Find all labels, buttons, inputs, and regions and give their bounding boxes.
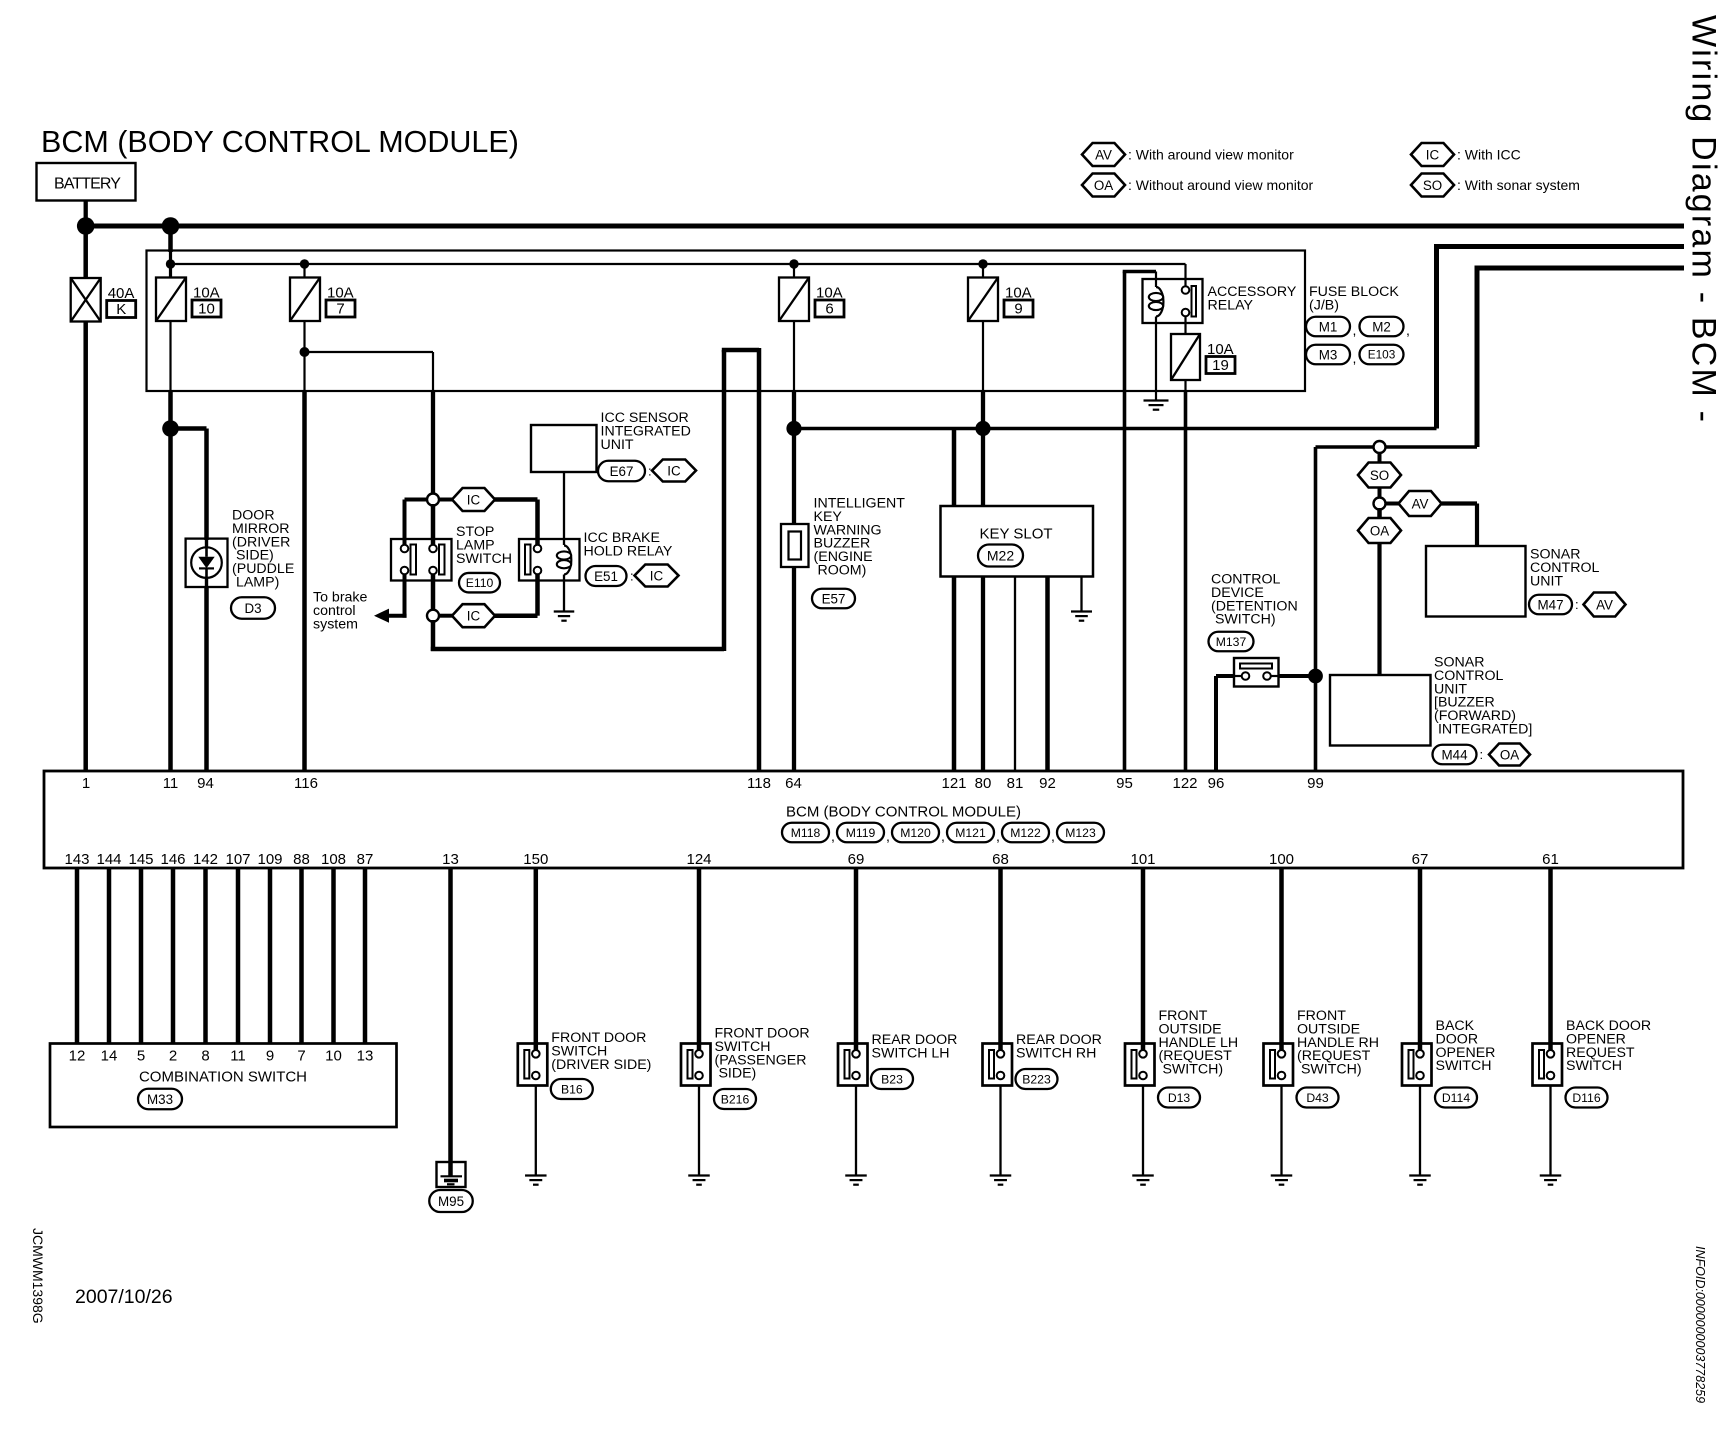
door mirror (puddle lamp) box D3 — [186, 539, 228, 587]
wire bus1 battery feed — [86, 224, 1684, 229]
node fuse 7 branch junction — [300, 347, 310, 357]
svg-text:IC: IC — [467, 492, 481, 507]
BCM pin 146 — [160, 851, 185, 868]
node IC branch top — [427, 494, 439, 506]
comma — [1353, 350, 1357, 366]
key slot label — [979, 526, 1052, 543]
svg-text:,: , — [1353, 350, 1357, 366]
fuse block label — [1309, 284, 1399, 313]
wire BCM to front door switch driver side — [534, 868, 539, 1051]
wire BCM pin13 to ground — [448, 868, 453, 1176]
fuse 10A 19 — [1171, 334, 1200, 380]
wire bus1 to fuse block drop — [168, 226, 173, 252]
svg-text:SWITCH): SWITCH) — [1159, 1062, 1224, 1078]
BCM pin 80 — [975, 775, 992, 792]
rear door switch RH box B223 — [983, 1044, 1013, 1086]
wire BCM to combination switch #4 — [171, 868, 176, 1044]
wire key feed branch to key slot — [952, 429, 957, 507]
svg-text:2: 2 — [169, 1048, 177, 1065]
wire BCM to combination switch #8 — [299, 868, 304, 1044]
wire top node west to pole2 — [405, 500, 428, 546]
wire AV to sonar control unit — [1442, 504, 1478, 547]
front door switch driver side box B16 — [518, 1044, 548, 1086]
infoid vertical text — [1693, 1246, 1707, 1403]
ground front door switch passenger side — [688, 1176, 710, 1185]
svg-text:IC: IC — [650, 568, 664, 583]
front door switch driver side label — [551, 1030, 651, 1073]
wire front door switch passenger side to ground — [698, 1086, 700, 1176]
value label 10A / fuse 10 — [192, 285, 221, 318]
wire BCM to front door switch passenger side — [697, 868, 702, 1051]
svg-text:: With around view monitor: : With around view monitor — [1128, 147, 1294, 163]
value label 10A / fuse 6 — [815, 285, 844, 318]
legend OA text — [1128, 177, 1314, 193]
wire BCM to combination switch #7 — [268, 868, 273, 1044]
svg-text:AV: AV — [1596, 597, 1613, 612]
svg-text:BCM (BODY CONTROL MODULE): BCM (BODY CONTROL MODULE) — [41, 125, 519, 159]
BCM pin 108 — [321, 851, 346, 868]
ICC sensor label — [601, 410, 691, 453]
svg-text:64: 64 — [785, 775, 802, 792]
svg-text:,: , — [996, 828, 1000, 844]
svg-text:(DRIVER SIDE): (DRIVER SIDE) — [551, 1057, 651, 1073]
front outside handle LH request switch box D13 — [1125, 1044, 1155, 1086]
wire low node west + arrow to brake control system — [374, 609, 407, 623]
BCM pin 92 — [1039, 775, 1056, 792]
svg-text:M3: M3 — [1319, 347, 1338, 362]
node key-line junction B — [975, 421, 990, 436]
svg-text:SIDE): SIDE) — [715, 1066, 757, 1082]
BCM pin 142 — [193, 851, 218, 868]
fuse block connector M3 — [1306, 345, 1350, 365]
front outside handle LH request switch label — [1159, 1008, 1239, 1078]
wire top node to switch pole1 — [431, 504, 436, 545]
svg-text:7: 7 — [336, 301, 344, 318]
svg-text:D3: D3 — [244, 601, 261, 616]
ground accessory relay — [1144, 401, 1169, 410]
wire BCM to back door opener switch — [1418, 868, 1423, 1051]
combination switch label — [139, 1069, 307, 1086]
svg-text:KEY SLOT: KEY SLOT — [979, 526, 1052, 543]
IC marker top — [439, 488, 495, 511]
BCM pin 116 — [294, 775, 318, 792]
wire door mirror to BCM pin 94 — [204, 587, 209, 771]
BCM pin 124 — [686, 851, 711, 868]
key slot connector M22 — [978, 545, 1023, 567]
svg-text:95: 95 — [1116, 775, 1133, 792]
BCM pin 81 — [1007, 775, 1024, 792]
BCM connector M122 — [1002, 823, 1055, 844]
fuse block J/B box — [147, 251, 1306, 392]
stop lamp switch label — [456, 524, 512, 567]
svg-text:LAMP): LAMP) — [232, 575, 279, 591]
back door opener request switch connector D116 — [1566, 1088, 1608, 1108]
svg-text::: : — [630, 569, 634, 584]
node AV/OA circle — [1374, 498, 1386, 510]
sonar control unit label — [1530, 547, 1599, 590]
svg-text:SO: SO — [1423, 178, 1442, 193]
wire key slot pin to BCM 80 — [981, 577, 985, 772]
fuse block connector M2 — [1360, 317, 1404, 337]
ground back door opener request switch — [1540, 1176, 1562, 1185]
accessory relay label — [1208, 284, 1297, 313]
ground rear door switch LH — [845, 1176, 867, 1185]
value label 10A / fuse 9 — [1004, 285, 1033, 318]
svg-text:,: , — [886, 828, 890, 844]
svg-text:INTEGRATED]: INTEGRATED] — [1434, 722, 1532, 738]
wire stop lamp feed — [431, 391, 435, 495]
svg-text:SWITCH RH: SWITCH RH — [1016, 1045, 1096, 1061]
legend SO symbol — [1411, 174, 1454, 197]
svg-text:: Without around view monitor: : Without around view monitor — [1128, 177, 1314, 193]
comma — [1406, 322, 1410, 338]
ground M95 box — [437, 1162, 466, 1187]
BCM pin 69 — [848, 851, 865, 868]
accessory relay box — [1143, 279, 1203, 323]
wire fuse 9 lead — [982, 321, 984, 391]
legend OA symbol — [1082, 174, 1125, 197]
node key-line junction A — [786, 421, 801, 436]
ground rear door switch RH — [990, 1176, 1012, 1185]
svg-text:68: 68 — [992, 851, 1009, 868]
svg-text:M119: M119 — [846, 826, 876, 840]
wire fuse 10 to junction — [168, 391, 173, 429]
BCM pin 95 — [1116, 775, 1133, 792]
wire low node to bottom run — [431, 620, 436, 651]
node sonar option circle — [1374, 441, 1386, 453]
svg-text:SWITCH): SWITCH) — [1211, 612, 1276, 628]
wire inner bus stub fuse9 — [982, 264, 984, 278]
ground front outside handle RH request switch — [1271, 1176, 1293, 1185]
svg-text:10: 10 — [325, 1048, 342, 1065]
wire junction to BCM pin 11 — [168, 429, 173, 772]
wire fuse 7 lead down — [303, 321, 305, 352]
front outside handle RH request switch label — [1297, 1008, 1379, 1078]
svg-text:(J/B): (J/B) — [1309, 297, 1339, 313]
svg-text:K: K — [116, 301, 126, 318]
svg-text:RELAY: RELAY — [1208, 297, 1254, 313]
svg-text:1: 1 — [82, 775, 90, 792]
svg-text:109: 109 — [257, 851, 282, 868]
svg-text:M47: M47 — [1537, 597, 1563, 612]
BCM pin 107 — [225, 851, 250, 868]
node control device junction — [1308, 669, 1323, 684]
wire BCM to combination switch #5 — [203, 868, 208, 1044]
node battery junction — [77, 217, 95, 235]
svg-text:69: 69 — [848, 851, 865, 868]
sonar buzzer unit box M44 — [1330, 675, 1431, 746]
wire BCM to rear door switch RH — [998, 868, 1003, 1051]
front door switch driver side connector B16 — [551, 1079, 593, 1099]
wire BCM to combination switch #9 — [331, 868, 336, 1044]
wire relay contact to fuse 19 — [1184, 317, 1186, 335]
combination switch pin 10 — [325, 1048, 342, 1065]
svg-text:M120: M120 — [900, 826, 931, 840]
stop lamp switch box E110 — [391, 539, 452, 581]
svg-text:M137: M137 — [1216, 635, 1247, 649]
wire back door opener request switch to ground — [1549, 1086, 1551, 1176]
OA marker — [1358, 508, 1401, 543]
title text — [41, 125, 519, 159]
svg-text:99: 99 — [1307, 775, 1324, 792]
svg-text:,: , — [1051, 828, 1055, 844]
wire BCM to rear door switch LH — [854, 868, 859, 1051]
BCM pin 99 — [1307, 775, 1324, 792]
wire buzzer to BCM pin 64 — [792, 567, 796, 771]
svg-text:OA: OA — [1500, 747, 1519, 762]
svg-text:87: 87 — [357, 851, 374, 868]
wire fuse 19 to BCM pin 122 — [1184, 380, 1186, 771]
svg-text:88: 88 — [293, 851, 310, 868]
svg-text:108: 108 — [321, 851, 346, 868]
BCM pin 64 — [785, 775, 802, 792]
combination switch pin 13 — [357, 1048, 374, 1065]
front door switch passenger side connector B216 — [714, 1089, 756, 1109]
svg-text:2007/10/26: 2007/10/26 — [75, 1286, 173, 1308]
svg-text:10: 10 — [198, 301, 215, 318]
svg-text:E51: E51 — [594, 569, 618, 584]
svg-text:146: 146 — [160, 851, 185, 868]
svg-text:,: , — [941, 828, 945, 844]
combination switch pin 12 — [69, 1048, 86, 1065]
wire fuse-block inner bus — [171, 263, 1186, 265]
SO marker — [1358, 463, 1401, 488]
legend AV text — [1128, 147, 1294, 163]
wire key slot pin to BCM 92 — [1045, 577, 1050, 772]
combination switch connector M33 — [138, 1089, 182, 1110]
BCM pin 150 — [523, 851, 548, 868]
wire rear door switch LH to ground — [855, 1086, 857, 1176]
svg-text:AV: AV — [1412, 496, 1429, 511]
ICC brake hold relay label — [584, 530, 673, 559]
wire ICC sensor to relay coil — [563, 472, 565, 545]
svg-text:B223: B223 — [1022, 1072, 1051, 1086]
BCM pin 68 — [992, 851, 1009, 868]
wire fuse 6 to key-line junction — [792, 391, 796, 429]
svg-text:94: 94 — [197, 775, 214, 792]
wire fuse 10 lower lead — [169, 321, 171, 391]
back door opener switch connector D114 — [1435, 1088, 1477, 1108]
BCM pin 87 — [357, 851, 374, 868]
svg-text:9: 9 — [1014, 301, 1022, 318]
value label 10A / fuse 19 — [1206, 341, 1235, 374]
svg-text:122: 122 — [1172, 775, 1197, 792]
intelligent key buzzer label — [814, 496, 906, 579]
date text — [75, 1286, 173, 1308]
wire BCM to front outside handle RH request switch — [1279, 868, 1284, 1051]
rear door switch RH connector B223 — [1016, 1069, 1058, 1089]
wire BCM to combination switch #6 — [236, 868, 241, 1044]
svg-text:9: 9 — [266, 1048, 274, 1065]
node inner bus junction fuse7 — [300, 259, 309, 268]
legend SO text — [1457, 177, 1580, 193]
control device switch box M137 — [1234, 658, 1279, 687]
wire battery stem — [84, 201, 88, 227]
svg-text:142: 142 — [193, 851, 218, 868]
node inner bus junction fuse9 — [978, 259, 987, 268]
svg-text:ROOM): ROOM) — [814, 563, 867, 579]
wire front outside handle LH request switch to ground — [1142, 1086, 1144, 1176]
svg-text:150: 150 — [523, 851, 548, 868]
ground back door opener switch — [1409, 1176, 1431, 1185]
wire OA to sonar buzzer unit — [1377, 543, 1381, 675]
svg-text:M118: M118 — [791, 826, 821, 840]
comma — [1353, 322, 1357, 338]
combination switch pin 8 — [201, 1048, 209, 1065]
svg-text:SWITCH: SWITCH — [456, 551, 512, 567]
svg-text:143: 143 — [64, 851, 89, 868]
svg-text:M1: M1 — [1319, 319, 1338, 334]
ground front door switch driver side — [525, 1176, 547, 1185]
svg-text:121: 121 — [941, 775, 966, 792]
rear door switch LH box B23 — [838, 1044, 868, 1086]
svg-text:118: 118 — [747, 775, 771, 792]
wire IC bottom to relay contact — [495, 574, 538, 616]
wire relay coil to ground — [563, 575, 565, 612]
BCM pin 144 — [96, 851, 121, 868]
BCM pin 121 — [941, 775, 966, 792]
combination switch pin 9 — [266, 1048, 274, 1065]
node inner bus junction fuse6 — [789, 259, 798, 268]
wire IC top to relay contact — [495, 500, 538, 546]
wire BCM to front outside handle LH request switch — [1141, 868, 1146, 1051]
wire BCM pin95 riser — [1123, 272, 1127, 772]
rear door switch LH label — [872, 1032, 958, 1061]
wire key slot ground lead — [1080, 577, 1082, 612]
wire bus3 — [1477, 266, 1684, 448]
wire BCM to combination switch #1 — [75, 868, 80, 1044]
svg-text:92: 92 — [1039, 775, 1056, 792]
sonar buzzer connector M44 — [1433, 744, 1531, 766]
node inner bus junction fuse10 — [166, 259, 175, 268]
fuse 10A 7 — [290, 278, 320, 322]
fuse 10A 6 — [779, 278, 809, 322]
svg-text:,: , — [1406, 322, 1410, 338]
wire BCM to combination switch #3 — [139, 868, 144, 1044]
IC marker bottom — [439, 604, 495, 627]
ground key slot — [1071, 612, 1092, 621]
BCM pin 96 — [1208, 775, 1225, 792]
svg-text:B23: B23 — [881, 1072, 903, 1086]
BCM pin 61 — [1542, 851, 1559, 868]
svg-text:,: , — [831, 828, 835, 844]
wire bus2 — [1437, 244, 1685, 429]
svg-text:19: 19 — [1212, 357, 1229, 374]
wire bottom run to right riser — [431, 647, 724, 652]
wire SO to AV/OA circle — [1378, 488, 1382, 500]
svg-text:D114: D114 — [1442, 1091, 1470, 1105]
svg-text:B16: B16 — [561, 1082, 583, 1096]
wire switch pole1 down to low node — [431, 574, 436, 611]
key slot box M22 — [941, 506, 1094, 577]
legend IC symbol — [1411, 143, 1454, 166]
svg-text:OA: OA — [1370, 523, 1389, 538]
BCM pin 101 — [1130, 851, 1155, 868]
combination switch pin 11 — [230, 1048, 246, 1065]
doc number vertical text — [30, 1228, 46, 1324]
ICC sensor integrated unit box E67 — [531, 425, 597, 472]
svg-text:SWITCH): SWITCH) — [1297, 1062, 1362, 1078]
svg-text:: With sonar system: : With sonar system — [1457, 177, 1580, 193]
ground connector M95 — [429, 1190, 473, 1212]
svg-text:,: , — [1353, 322, 1357, 338]
back door opener switch box D114 — [1402, 1044, 1432, 1086]
svg-text:13: 13 — [357, 1048, 374, 1065]
svg-text:61: 61 — [1542, 851, 1559, 868]
svg-text:116: 116 — [294, 775, 318, 792]
to brake control system label — [313, 590, 368, 633]
fuse 10A 9 — [968, 278, 998, 322]
BCM inner title — [786, 804, 1021, 821]
BCM pin 145 — [128, 851, 153, 868]
wire key feed line — [794, 427, 1437, 430]
svg-text:BCM (BODY CONTROL MODULE): BCM (BODY CONTROL MODULE) — [786, 804, 1021, 821]
svg-text:E103: E103 — [1368, 348, 1396, 362]
svg-text:IC: IC — [667, 463, 681, 478]
sonar control unit box M47 — [1426, 546, 1526, 617]
intelligent key warning buzzer symbol E57 — [781, 524, 809, 567]
value label 40A / fuse K — [107, 285, 136, 318]
wire inner bus stub fuse6 — [793, 264, 795, 278]
wire pole2 down — [403, 574, 407, 618]
BCM pin 1 — [82, 775, 90, 792]
wire BCM to combination switch #10 — [363, 868, 368, 1044]
svg-text:12: 12 — [69, 1048, 86, 1065]
combination switch pin 2 — [169, 1048, 177, 1065]
wire control device west to BCM pin 96 — [1216, 676, 1234, 771]
svg-text:Wiring Diagram - BCM -: Wiring Diagram - BCM - — [1685, 15, 1723, 424]
svg-text::: : — [1575, 597, 1579, 612]
wire rear door switch RH to ground — [999, 1086, 1001, 1176]
node fuse-block feed junction — [162, 217, 180, 235]
wire branch to door mirror — [171, 429, 207, 541]
wire fuse7 branch to stop lamp feed — [305, 352, 434, 391]
back door opener request switch box D116 — [1533, 1044, 1563, 1086]
wire inner bus stub fuse10 — [169, 252, 172, 278]
svg-text:E57: E57 — [822, 591, 846, 606]
svg-text:HOLD RELAY: HOLD RELAY — [584, 543, 673, 559]
value label 10A / fuse 7 — [326, 285, 355, 318]
node IC branch bottom — [427, 610, 439, 622]
svg-text:80: 80 — [975, 775, 992, 792]
sonar control connector M47 — [1529, 593, 1626, 617]
front door switch passenger side label — [715, 1026, 810, 1082]
BCM pin 100 — [1269, 851, 1294, 868]
battery box B1 — [37, 163, 136, 201]
front outside handle RH request switch connector D43 — [1297, 1088, 1339, 1108]
wire key slot pin to BCM 121 — [952, 577, 957, 772]
fuse 40A K — [71, 278, 101, 322]
ICC sensor connector E67 — [598, 460, 696, 482]
wire key slot pin to BCM 81 — [1014, 577, 1016, 772]
svg-text:E110: E110 — [466, 576, 494, 590]
svg-text:14: 14 — [101, 1048, 118, 1065]
combination switch pin 5 — [137, 1048, 145, 1065]
wire fuse 6 lead — [793, 321, 795, 391]
svg-text:system: system — [313, 616, 358, 632]
wire fuse 40A to BCM pin 1 — [83, 322, 88, 772]
svg-text:81: 81 — [1007, 775, 1024, 792]
svg-text:M123: M123 — [1065, 826, 1096, 840]
wire inner bus to relay contact — [1184, 264, 1186, 287]
wire BCM to combination switch #2 — [107, 868, 112, 1044]
svg-text:8: 8 — [201, 1048, 209, 1065]
wire riser to relay coil — [1123, 272, 1156, 288]
svg-text:SO: SO — [1370, 468, 1389, 483]
control device label — [1211, 572, 1298, 628]
buzzer connector E57 — [812, 589, 855, 609]
back door opener request switch label — [1566, 1018, 1651, 1074]
